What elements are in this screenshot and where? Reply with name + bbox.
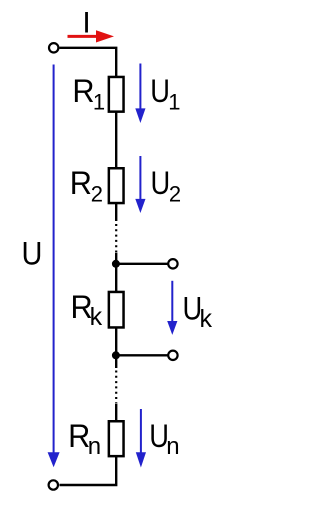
node A (junction dot): [112, 260, 120, 268]
svg-text:R: R: [70, 165, 92, 201]
svg-text:n: n: [88, 433, 101, 460]
svg-text:k: k: [200, 305, 213, 333]
wire: dotted section node B to Rn: [115, 371, 117, 404]
wire: top terminal to main line, corner down to R1: [60, 48, 117, 77]
wire: solid into Rn: [115, 404, 117, 422]
svg-text:n: n: [166, 433, 179, 460]
wire: node B to tap terminal 2: [116, 354, 168, 356]
wire: R1 to R2: [115, 112, 117, 168]
wire: below R2 (solid): [115, 204, 117, 222]
resistor Rn: [109, 421, 124, 456]
svg-text:U: U: [151, 165, 171, 201]
wire: node A to Rk: [115, 264, 117, 292]
svg-text:k: k: [90, 303, 103, 331]
tap terminal 1: [168, 259, 177, 268]
total voltage arrow U (blue, left side): [48, 65, 60, 468]
resistor R1: [109, 77, 124, 112]
svg-text:1: 1: [93, 90, 105, 115]
top terminal: [49, 43, 58, 52]
node B (junction dot): [112, 351, 120, 359]
svg-text:2: 2: [169, 182, 181, 207]
current arrow (red): [68, 30, 115, 42]
wire: node A to tap terminal 1: [116, 263, 168, 265]
resistor R2: [109, 168, 124, 203]
voltage arrow U1 (blue): [135, 64, 145, 124]
svg-text:1: 1: [168, 90, 180, 115]
wire: dotted section R2 to node A: [115, 224, 117, 252]
voltage arrow Un (blue): [136, 409, 146, 468]
bottom terminal: [49, 480, 58, 489]
wire: below node B (solid): [115, 355, 117, 368]
svg-text:2: 2: [91, 182, 103, 207]
resistor Rk: [109, 292, 124, 328]
wire: solid into node A: [115, 253, 117, 266]
wire: Rk to node B: [115, 327, 117, 355]
voltage arrow Uk (blue): [167, 281, 177, 335]
wire: Rn to bottom corner to bottom terminal: [60, 456, 117, 486]
tap terminal 2: [168, 351, 177, 360]
svg-text:U: U: [150, 73, 170, 109]
svg-text:I: I: [82, 6, 90, 39]
svg-text:U: U: [22, 236, 43, 272]
voltage arrow U2 (blue): [135, 156, 145, 213]
svg-text:R: R: [72, 73, 94, 109]
